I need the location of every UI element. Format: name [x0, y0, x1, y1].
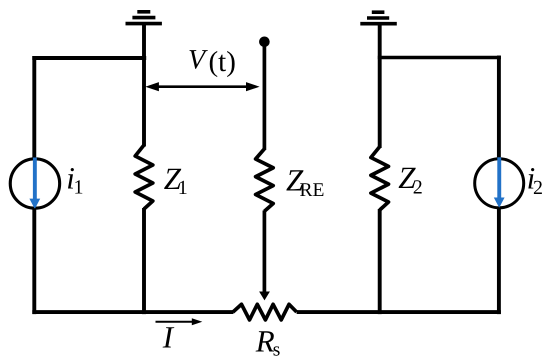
svg-text:1: 1: [178, 177, 188, 199]
arrow: i2 current direction (blue, down): [494, 157, 505, 208]
current source i1: [10, 159, 59, 208]
svg-text:R: R: [255, 323, 275, 358]
resistor Rs (horizontal, with wiper arrow above): [233, 304, 297, 320]
wire: left vertical upper (rail to current source i1): [32, 56, 36, 159]
svg-text:RE: RE: [300, 180, 325, 201]
svg-text:I: I: [162, 320, 175, 355]
svg-text:1: 1: [74, 177, 84, 199]
ground GND2 (right, above Z2): [360, 12, 397, 24]
wire: right vertical upper (rail to current source i2): [497, 56, 501, 159]
svg-text:2: 2: [533, 177, 543, 199]
node A (top of ZRE): [259, 37, 270, 48]
svg-text:V: V: [188, 45, 208, 76]
wire: bottom rail right of Rs: [297, 310, 501, 314]
resistor ZRE: [256, 149, 274, 212]
wire: node A down to resistor ZRE: [263, 44, 267, 150]
svg-text:2: 2: [413, 177, 423, 199]
arrow: i1 current direction (blue, down): [29, 158, 40, 210]
resistor Z2: [371, 147, 389, 210]
wire: left vertical lower (i1 to bottom rail): [32, 208, 36, 314]
wire: bottom rail left of Rs: [32, 310, 233, 314]
wire: right vertical lower (i2 to bottom rail): [497, 208, 501, 314]
arrow: current I (right, below bottom rail): [156, 318, 203, 325]
svg-text:s: s: [273, 340, 281, 361]
wire: Z2 lower segment to bottom rail: [378, 209, 382, 314]
current source i2: [475, 159, 524, 208]
arrow: ZRE wiper arrowhead (down onto Rs): [259, 292, 270, 301]
ground GND1 (left, above Z1): [126, 12, 162, 24]
wire: Z1 lower segment to bottom rail: [142, 208, 146, 314]
wire: ZRE lower segment down to wiper arrow: [263, 211, 267, 293]
wire: ground GND2 down to Z2 (crosses top-right rail): [378, 24, 382, 148]
wire: top-left horizontal rail: [32, 56, 146, 60]
svg-text:(t): (t): [209, 46, 236, 78]
wire: ground GND1 down to Z1 (crosses top-left rail): [142, 24, 146, 147]
wire: top-right horizontal rail: [378, 56, 501, 60]
arrow: V(t) double-headed: [145, 82, 259, 91]
resistor Z1: [135, 145, 153, 209]
